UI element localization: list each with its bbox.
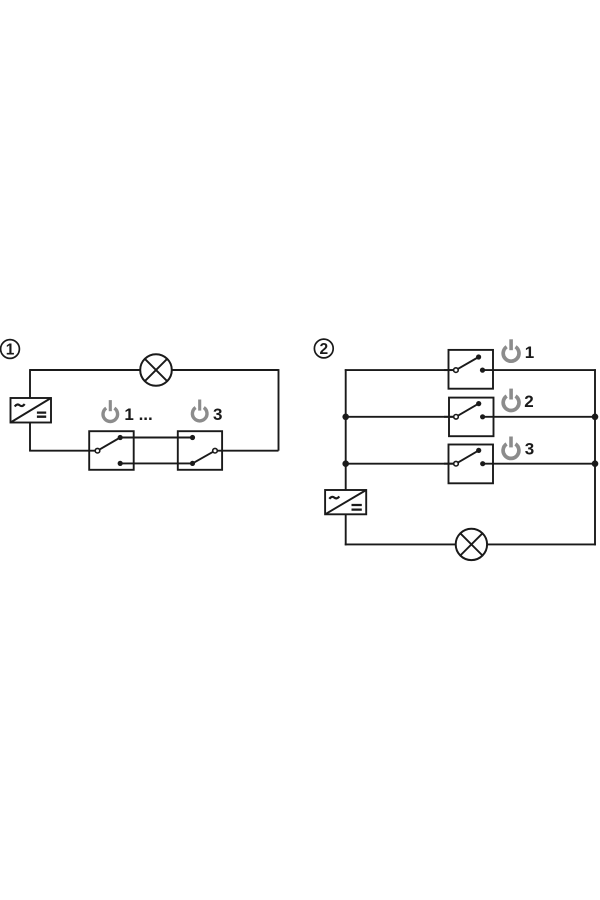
svg-text:2: 2 <box>319 341 328 358</box>
wire left bus below power supply (circuit 2) <box>345 514 347 545</box>
wire bottom right (circuit 2) <box>487 543 596 545</box>
wire left vertical upper (circuit 1) <box>29 369 31 398</box>
svg-text:1: 1 <box>525 343 534 362</box>
wire bottom to switch S1 (circuit 1) <box>29 450 96 452</box>
junction right bus row 3 <box>592 460 599 467</box>
svg-text:1 ...: 1 ... <box>124 405 152 424</box>
svg-text:3: 3 <box>525 440 534 459</box>
wire right vertical (circuit 1) <box>278 369 280 451</box>
wire between switches bottom (circuit 1) <box>120 462 192 464</box>
svg-text:2: 2 <box>524 392 533 411</box>
junction left bus row 3 <box>342 460 349 467</box>
power icon 1 (circuit 2) <box>503 339 519 361</box>
junction left bus row 2 <box>342 414 349 421</box>
svg-text:1: 1 <box>6 342 15 359</box>
switch S1 (circuit 1) <box>89 431 134 470</box>
switch S3 (circuit 2) <box>444 445 493 484</box>
wire left vertical lower (circuit 1) <box>29 423 31 451</box>
wire bottom left (circuit 2) <box>345 543 456 545</box>
power supply U2 (circuit 2) <box>325 490 366 514</box>
wire row 3 left (circuit 2) <box>345 463 454 465</box>
wire top left (circuit 1) <box>30 369 140 371</box>
label circled 2 <box>314 339 333 358</box>
wire between switches top (circuit 1) <box>120 437 192 439</box>
wire right bus (circuit 2) <box>594 369 596 545</box>
junction right bus row 2 <box>592 414 599 421</box>
wire row 3 right (circuit 2) <box>483 463 596 465</box>
wire switch S2 to right bus (circuit 1) <box>215 450 279 452</box>
switch S1 (circuit 2) <box>444 350 493 389</box>
power supply U1 (circuit 1) <box>11 398 52 423</box>
lamp (circuit 1) <box>140 354 172 386</box>
wire row 2 right (circuit 2) <box>483 416 596 418</box>
switch S2 (circuit 2) <box>444 398 494 437</box>
switch S2 (circuit 1) <box>178 431 222 470</box>
svg-text:3: 3 <box>213 405 222 424</box>
wire row 2 left (circuit 2) <box>345 416 454 418</box>
power icon 1 (circuit 1) <box>103 400 118 421</box>
power icon 3 (circuit 2) <box>503 437 519 459</box>
wire row 1 left (circuit 2) <box>345 369 453 371</box>
lamp (circuit 2) <box>456 529 487 560</box>
wire left bus (circuit 2) <box>345 369 347 490</box>
wire row 1 right (circuit 2) <box>483 369 596 371</box>
power icon 2 (circuit 2) <box>503 389 519 411</box>
wire top right (circuit 1) <box>172 369 279 371</box>
label circled 1 <box>1 340 20 359</box>
power icon 3 (circuit 1) <box>192 400 207 421</box>
